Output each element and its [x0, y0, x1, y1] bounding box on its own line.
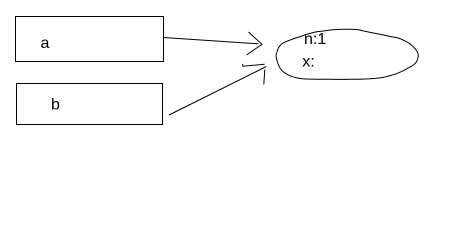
svg-text:n:1: n:1: [304, 31, 326, 48]
svg-text:b: b: [51, 97, 60, 114]
svg-text:a: a: [41, 35, 50, 52]
svg-text:x:: x:: [302, 53, 314, 70]
